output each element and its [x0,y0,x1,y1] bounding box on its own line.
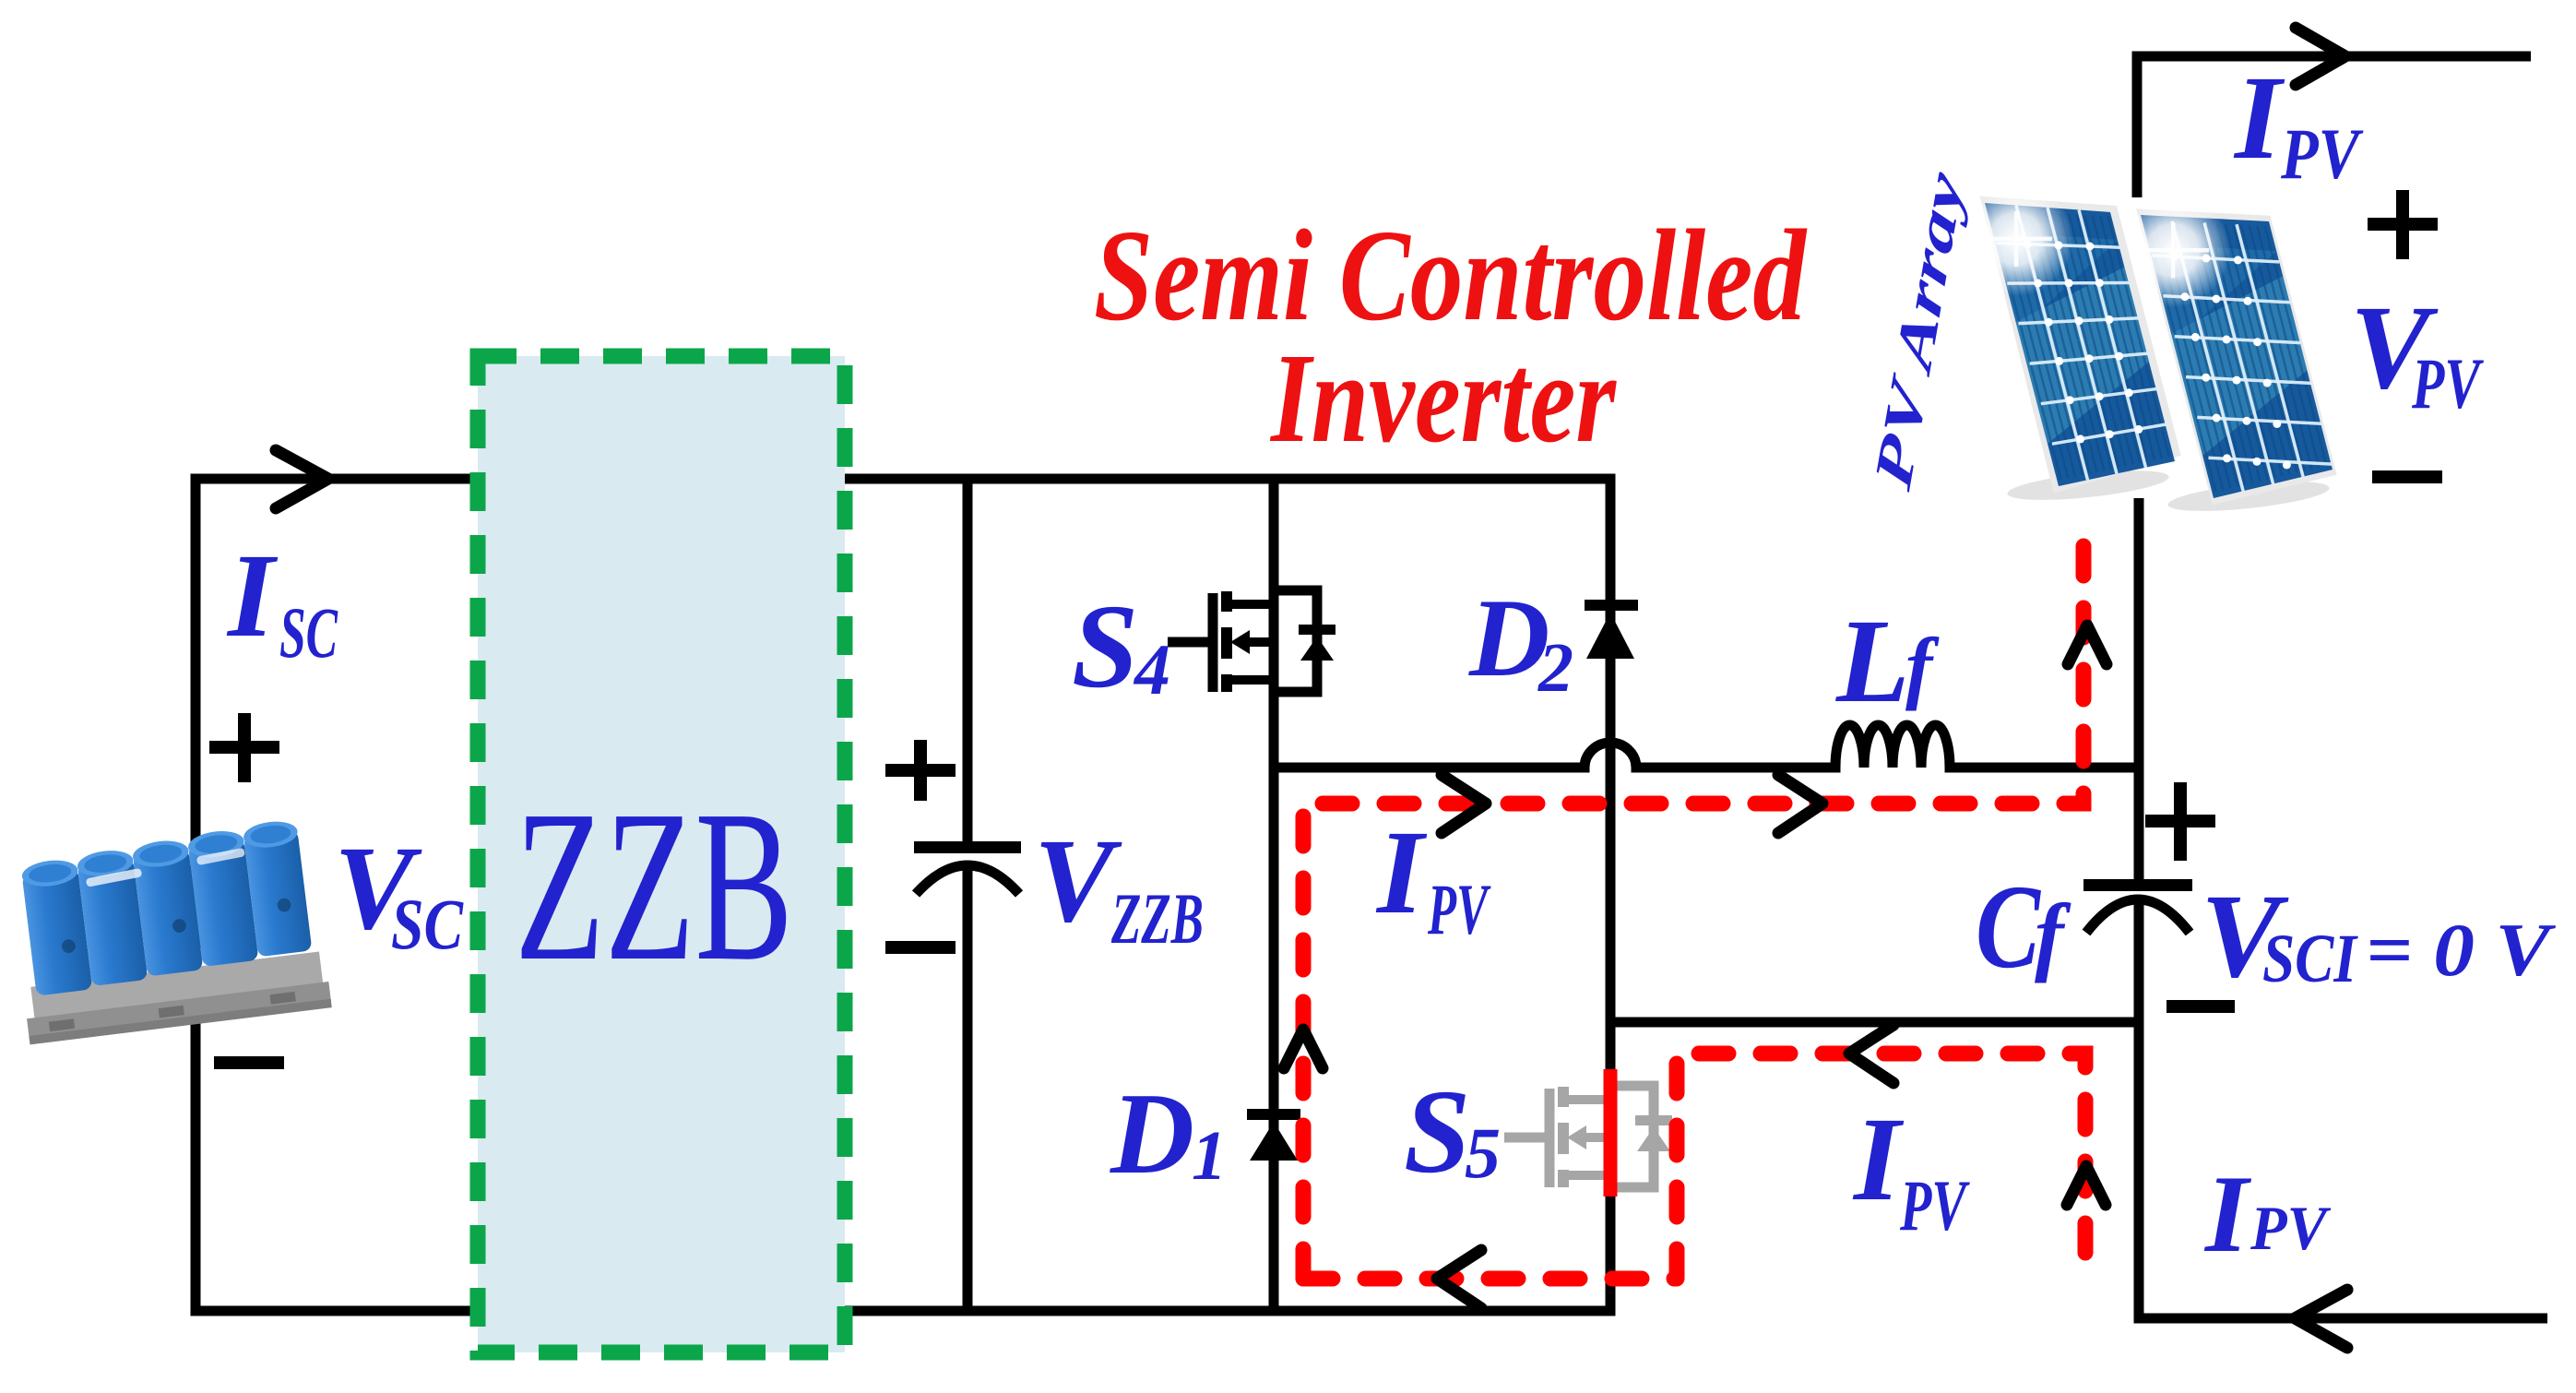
label S4 [1072,580,1170,713]
svg-text:D: D [1110,1070,1194,1198]
ZZB dashed box [478,356,845,1352]
red dashed current path loop A (through D1, Lf up to PV) [1303,522,2083,1279]
svg-text:PV: PV [2411,343,2484,423]
svg-text:S: S [1404,1066,1470,1198]
title Semi Controlled Inverter [1094,202,1808,470]
arrow on red path A horizontal 1 [1442,775,1486,833]
label V_PV [2350,281,2484,423]
red solid overlay on S5 channel [1604,1069,1618,1197]
arrow on red path A horizontal 2 [1778,775,1822,833]
diode D1 [1247,1109,1300,1161]
red dashed current path loop B (return through S5) [1303,1054,2085,1282]
svg-text:Inverter: Inverter [1269,327,1617,470]
label I_PV middle [1375,806,1491,949]
label I_SC [226,530,338,673]
svg-text:4: 4 [1133,629,1170,709]
plus sign Cf [2145,782,2215,861]
svg-text:SC: SC [391,884,464,964]
label Lf [1835,595,1940,728]
arrow I_PV top right [2296,28,2345,85]
arrow on red path B middle (left) [1849,1025,1893,1083]
wire: PV right vertical upper + top stub [2137,56,2531,197]
svg-text:PV: PV [2280,113,2364,194]
arrow I_SC on top-left wire [276,450,328,508]
minus sign V_ZZB [885,941,956,954]
arrow on red path A left vertical (up) [1284,1030,1323,1068]
minus sign supercap [214,1056,284,1069]
plus sign V_ZZB [885,740,956,801]
supercapacitor module image [6,817,332,1045]
label I_PV top right [2233,52,2364,194]
capacitor V_ZZB [914,841,1021,894]
svg-text:ZZB: ZZB [515,766,793,1006]
label S5 [1404,1066,1501,1198]
svg-text:Semi Controlled: Semi Controlled [1094,202,1808,348]
label Cf [1976,861,2071,994]
svg-text:PV: PV [1427,869,1491,949]
svg-text:V: V [1034,815,1122,947]
capacitor Cf [2083,879,2192,933]
wire: V_ZZB capacitor branch lower [963,868,973,1311]
svg-text:PV: PV [1899,1165,1970,1245]
svg-text:5: 5 [1465,1113,1501,1193]
svg-text:SCI: SCI [2262,921,2358,997]
mosfet S5 (gray) [1504,1086,1672,1187]
minus sign Cf [2166,1000,2235,1013]
svg-text:ZZB: ZZB [1110,878,1204,958]
svg-text:S: S [1072,580,1138,713]
svg-text:PV: PV [2250,1193,2331,1263]
wire: PV right vertical (panel bottom to Cf) [2134,498,2144,879]
arrow on red path B right vertical (up) [2067,1166,2106,1205]
arrow I_PV bottom right [2295,1290,2347,1348]
arrow on red path B bottom (left) [1437,1250,1481,1308]
svg-text:I: I [226,530,279,662]
PV panel 2 (right) [2116,193,2336,505]
label V_ZZB [1034,815,1204,958]
label V_SCI = 0 V [2201,870,2557,1003]
label I_PV bottom middle [1852,1093,1970,1245]
label D1 [1110,1070,1227,1198]
mosfet S4 [1168,590,1335,692]
label I_PV bottom right [2203,1152,2331,1275]
svg-text:L: L [1835,595,1909,728]
svg-text:C: C [1976,861,2041,994]
label V_SC [334,822,464,964]
svg-text:I: I [2203,1152,2252,1275]
label PV Array (rotated) [1863,163,1975,497]
svg-text:I: I [1852,1093,1905,1226]
plus sign V_PV [2368,190,2438,259]
PV panel 1 (left) [1959,182,2181,494]
arrow on red path A right vertical (up) [2068,625,2107,664]
diode D2 [1585,600,1638,659]
svg-text:I: I [1375,806,1428,939]
wire: S4/D1 branch vertical [1269,479,1279,1311]
PV array panel shadows [2006,465,2170,506]
wire: V_ZZB capacitor branch upper [963,479,973,842]
wire: supercap loop (left vertical, top bus to ZZB, bottom bus, inverter left rail) [196,479,1610,1311]
plus sign supercap [209,713,279,782]
svg-text:SC: SC [279,592,338,673]
svg-text:2: 2 [1537,629,1573,707]
minus sign V_PV [2372,470,2442,483]
svg-text:I: I [2233,52,2285,185]
wire: middle bus with crossover hump and inductor Lf [1274,725,2139,768]
svg-text:1: 1 [1192,1117,1227,1195]
svg-text:= 0 V: = 0 V [2366,908,2557,992]
wire: lower inverter output bus to Cf bottom [1610,1018,2139,1028]
wire: right vertical below Cf and bottom-right stub [2139,899,2547,1318]
label D2 [1468,577,1573,707]
